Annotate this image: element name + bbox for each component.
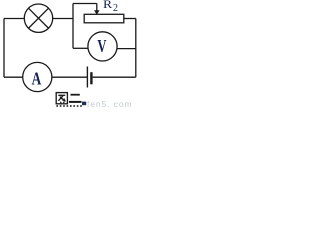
svg-text:fen5. com: fen5. com — [87, 99, 132, 109]
voltmeter V — [88, 32, 117, 61]
wire: ammeter left lead — [4, 76, 23, 78]
wire: resistor right lead to right rail — [124, 18, 136, 20]
wire: lamp right lead to junction — [53, 18, 73, 20]
dark square mark before watermark — [82, 102, 86, 106]
wire: lamp left lead to left rail — [4, 18, 24, 20]
wire: junction vertical (node between lamp, rheostat wiper, voltmeter) — [72, 4, 74, 49]
wire: top run to wiper — [73, 3, 97, 5]
battery cell: short thick plate — [90, 72, 92, 84]
wire: voltmeter right lead to right rail — [117, 48, 136, 50]
dotted fill-in line under caption — [56, 105, 81, 107]
wire: left rail vertical — [3, 19, 5, 78]
wire: voltmeter left lead — [73, 47, 88, 49]
svg-text:V: V — [97, 37, 107, 57]
wire: battery right lead to right rail — [93, 76, 136, 78]
wire: ammeter right lead to battery — [52, 76, 88, 78]
wiper arrow of rheostat R2 — [95, 4, 99, 15]
lamp (bulb) — [24, 4, 52, 32]
svg-text:R: R — [103, 0, 113, 11]
svg-text:2: 2 — [113, 3, 118, 14]
battery cell: long plate — [86, 67, 88, 88]
caption character 图 (hand-drawn strokes) — [56, 93, 67, 104]
ammeter A — [23, 62, 52, 91]
caption character 二 (hand-drawn strokes) — [69, 95, 82, 102]
resistor R2 (rheostat body) — [84, 14, 124, 22]
svg-text:A: A — [32, 70, 42, 89]
wire: right rail vertical — [135, 19, 137, 78]
